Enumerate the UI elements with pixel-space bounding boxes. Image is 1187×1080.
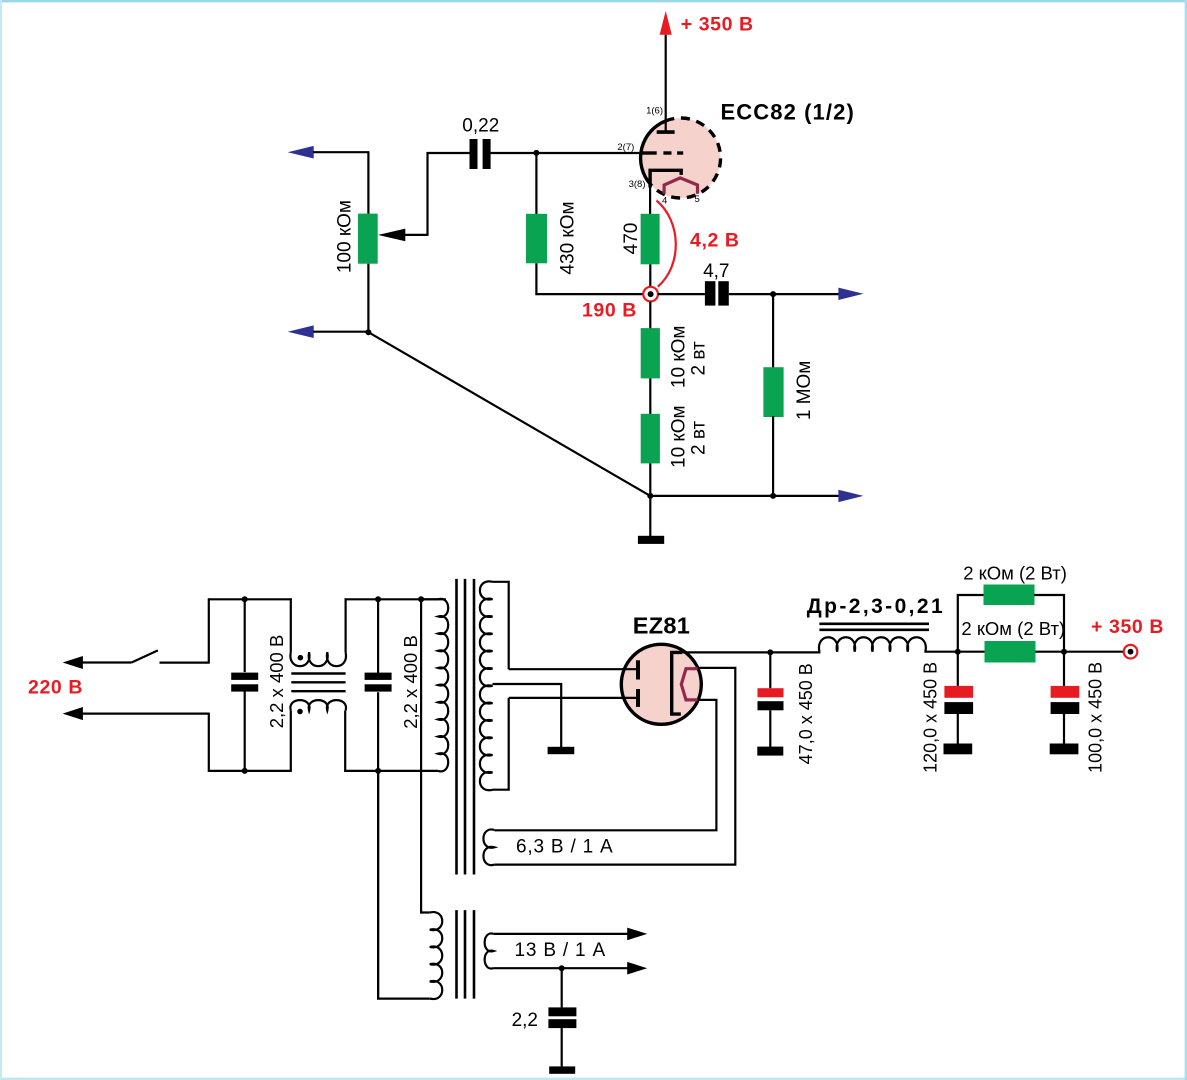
choke L1 winding: [819, 637, 926, 651]
node ground main: [647, 493, 653, 499]
T3 primary bottom lead: [378, 771, 430, 999]
wire switch to leg: [160, 661, 210, 663]
svg-text:2,2 x 400 В: 2,2 x 400 В: [266, 635, 287, 729]
resistor R 430k: [526, 214, 547, 263]
cathode EZ81: [672, 652, 682, 714]
node 100uF: [1061, 649, 1067, 655]
tube U2 EZ81 body: [621, 644, 701, 724]
T2 primary bottom lead: [436, 770, 438, 772]
svg-text:2 кОм (2 Вт): 2 кОм (2 Вт): [963, 563, 1067, 584]
svg-text:100,0 x 450 В: 100,0 x 450 В: [1086, 662, 1106, 773]
svg-text:220 В: 220 В: [28, 677, 83, 699]
wire choke stub bl: [290, 711, 292, 771]
svg-text:13 В / 1 А: 13 В / 1 А: [515, 940, 606, 961]
resistor R 10k-2: [641, 414, 660, 464]
node cap2 top: [375, 596, 381, 602]
wire 13V bottom: [494, 967, 628, 969]
node 13V cap: [559, 965, 565, 971]
node grid junction: [533, 150, 539, 156]
node cap2 bottom: [375, 768, 381, 774]
wire 13V top: [494, 933, 628, 935]
wire cathode out: [681, 651, 821, 653]
node out upper: [770, 291, 776, 297]
svg-text:100 кОм: 100 кОм: [334, 200, 355, 273]
wire anode supply: [665, 35, 667, 132]
resistor R 2k no.1: [984, 585, 1035, 606]
heater EZ81: [681, 669, 697, 700]
wire 1M top: [772, 294, 774, 368]
mains arrow lower: [63, 707, 83, 720]
T2 HV bottom lead: [493, 698, 509, 790]
svg-text:120,0 x 450 В: 120,0 x 450 В: [920, 662, 940, 773]
resistor R 470: [641, 214, 660, 264]
wire pot top: [367, 152, 369, 214]
wire choke stub tl: [290, 598, 292, 652]
input arrow upper left: [288, 146, 314, 159]
wire mains lower: [82, 712, 210, 714]
capacitor C 100uF: [1050, 652, 1080, 755]
red arc 4,2V: [657, 201, 676, 287]
resistor R 10k-1: [641, 328, 660, 378]
wire bottom rail: [649, 495, 839, 497]
svg-text:190 В: 190 В: [582, 299, 637, 321]
node primary top: [418, 596, 424, 602]
capacitor C 2,2x400V no.2: [365, 599, 392, 771]
page frame: [0, 0, 1187, 2]
svg-text:5: 5: [695, 194, 700, 205]
svg-text:0,22: 0,22: [462, 116, 499, 137]
capacitor C 120uF: [944, 652, 974, 755]
mains arrow upper: [63, 656, 83, 669]
node cap1 top: [242, 596, 248, 602]
wire cap to grid: [491, 152, 642, 154]
grid U1 (dashes): [643, 151, 684, 154]
choke T1 core: [291, 674, 345, 692]
tube U2 EZ81 envelope: [621, 644, 701, 724]
svg-text:6,3 В / 1 А: 6,3 В / 1 А: [516, 837, 614, 858]
wire cap2 down: [377, 771, 379, 999]
svg-text:2 вт: 2 вт: [689, 341, 710, 376]
potentiometer R 100k: [358, 214, 378, 264]
wire mains upper: [82, 661, 132, 663]
svg-text:2(7): 2(7): [617, 142, 634, 153]
T3 primary feed curve: [421, 912, 430, 913]
T2 HV center tap: [493, 684, 562, 747]
wire 6,3V bottom: [494, 668, 735, 865]
wire wiper to cap: [427, 152, 470, 154]
wire wiper right: [404, 234, 427, 236]
svg-text:1(6): 1(6): [646, 106, 663, 117]
svg-text:4: 4: [662, 196, 667, 207]
input arrow lower left: [288, 325, 314, 338]
anode 2 EZ81: [636, 689, 640, 707]
capacitor 4,7: [705, 281, 729, 305]
node dot top winding: [298, 655, 304, 661]
svg-text:2 вт: 2 вт: [689, 420, 710, 455]
choke T1 winding top: [290, 652, 346, 666]
capacitor 0,22: [470, 139, 491, 169]
svg-text:2 кОм (2 Вт): 2 кОм (2 Вт): [961, 618, 1065, 639]
wire 6,3V top: [494, 700, 716, 830]
wire diagonal to gnd: [368, 332, 650, 496]
wire node to cap4,7: [658, 293, 705, 295]
wire 1M bottom: [772, 416, 774, 497]
wire cap4,7 to out: [729, 293, 839, 295]
choke L1 core: [819, 624, 929, 630]
switch SA1: [132, 650, 158, 662]
wire to output: [1064, 651, 1124, 653]
T2 HV secondary winding: [480, 581, 493, 790]
node 120uF: [955, 649, 961, 655]
svg-text:ECC82 (1/2): ECC82 (1/2): [721, 99, 855, 124]
wire top rail 1: [209, 598, 292, 600]
node 47uF: [767, 649, 773, 655]
T3 secondary winding: [485, 933, 494, 968]
wire choke stub tr: [345, 598, 347, 652]
wire node to 10k-1: [649, 302, 651, 329]
wire plate1 EZ81: [509, 668, 638, 670]
wire input upper: [313, 151, 369, 153]
T3 primary winding: [430, 912, 442, 999]
wire cathode to R470: [649, 186, 651, 215]
wire choke out: [924, 651, 958, 653]
T3 core: [457, 910, 475, 999]
pot wiper arrow: [378, 229, 405, 242]
svg-text:2,2: 2,2: [512, 1010, 538, 1031]
wire R470 to node: [649, 264, 651, 287]
wire bottom rail 2: [344, 770, 437, 772]
wire input lower: [313, 331, 369, 333]
wire 2k top left: [958, 595, 985, 653]
tube U1 ECC82 envelope: [641, 118, 721, 198]
wire wiper up: [426, 152, 428, 236]
node cap1 bottom: [242, 768, 248, 774]
ground HV center tap: [548, 747, 575, 754]
choke T1 winding bottom: [290, 700, 346, 711]
svg-text:2,2 x 400 В: 2,2 x 400 В: [400, 635, 421, 729]
capacitor C 2,2 13V: [548, 968, 576, 1074]
capacitor C 47uF: [757, 652, 783, 755]
svg-text:10 кОм: 10 кОм: [668, 405, 689, 468]
output arrow lower: [838, 490, 863, 502]
svg-text:+ 350 В: + 350 В: [681, 13, 754, 35]
svg-text:470: 470: [621, 223, 642, 255]
T2 HV top lead: [493, 582, 509, 669]
T2 primary top lead: [420, 598, 438, 600]
wire pot bottom: [367, 264, 369, 333]
output arrow 13V bottom: [627, 962, 647, 975]
svg-text:4,2 В: 4,2 В: [690, 230, 740, 252]
svg-text:Др-2,3-0,21: Др-2,3-0,21: [807, 595, 945, 618]
wire 2k top right: [1034, 595, 1064, 653]
output terminal +350V: [1124, 645, 1138, 659]
node dot bottom winding: [297, 709, 303, 715]
wire 10k-1 to 10k-2: [649, 378, 651, 414]
node input lower: [365, 329, 371, 335]
svg-text:3(8): 3(8): [629, 179, 646, 190]
node 190V: [643, 287, 658, 302]
cathode U1: [650, 170, 681, 187]
wire plate2 EZ81: [509, 697, 638, 699]
wire choke stub br: [344, 711, 346, 772]
T3 primary top lead: [420, 911, 422, 913]
svg-text:430 кОм: 430 кОм: [558, 201, 579, 274]
heater U1: [664, 178, 697, 194]
anode 1 EZ81: [636, 660, 640, 679]
anode plate U1: [657, 130, 675, 134]
output arrow 13V top: [627, 928, 647, 941]
capacitor C 2,2x400V no.1: [231, 599, 258, 771]
svg-text:4,7: 4,7: [703, 261, 729, 282]
wire top rail 2: [345, 598, 446, 600]
wire gnd stem: [649, 496, 651, 536]
wire 430k top: [535, 153, 537, 215]
T2 primary winding: [438, 599, 448, 771]
wire left leg upper: [208, 598, 210, 662]
svg-text:47,0 x 450 В: 47,0 x 450 В: [796, 663, 816, 764]
wire T2 primary feed: [420, 599, 422, 912]
ground main: [638, 536, 664, 544]
wire left leg lower: [208, 714, 210, 772]
tube U1 ECC82 body: [641, 118, 721, 198]
wire main line 2k: [957, 651, 1065, 653]
wire 430k bottom: [535, 263, 537, 295]
wire bottom rail 1: [209, 770, 292, 772]
resistor R 1M: [763, 367, 783, 417]
svg-text:10 кОм: 10 кОм: [668, 326, 689, 389]
svg-text:+ 350 В: + 350 В: [1091, 616, 1164, 638]
node out lower: [770, 493, 776, 499]
svg-text:EZ81: EZ81: [633, 613, 690, 639]
T2 6,3V winding: [483, 829, 494, 865]
output arrow upper: [838, 288, 863, 300]
wire 10k-2 to gnd: [649, 463, 651, 496]
resistor R 2k no.2: [985, 641, 1036, 663]
power +350V arrow: [660, 11, 672, 35]
svg-text:1 МОм: 1 МОм: [794, 361, 815, 421]
T2 core: [457, 579, 475, 875]
